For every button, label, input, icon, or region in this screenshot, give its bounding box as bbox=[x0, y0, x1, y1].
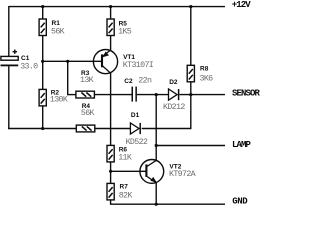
resistor R1 bbox=[39, 19, 65, 36]
node dot rail-R1 bbox=[41, 5, 44, 8]
svg-text:1K5: 1K5 bbox=[118, 27, 132, 36]
node dot R6-R7-base bbox=[109, 170, 112, 173]
wire R8 top bbox=[190, 7, 192, 66]
svg-text:56K: 56K bbox=[51, 27, 65, 36]
wire C1 bottom to R4 row bbox=[8, 66, 10, 129]
svg-text:33.0: 33.0 bbox=[20, 62, 38, 71]
svg-text:KT3107I: KT3107I bbox=[123, 61, 154, 70]
wire R2 bottom bbox=[42, 106, 44, 129]
wire R8 bottom bbox=[190, 82, 192, 95]
svg-text:KT972A: KT972A bbox=[169, 170, 196, 179]
svg-text:KD212: KD212 bbox=[163, 103, 185, 112]
wire LAMP row bbox=[156, 145, 225, 147]
node dot LAMP junction bbox=[155, 144, 158, 147]
resistor R3 bbox=[76, 70, 95, 98]
diode D2 bbox=[163, 79, 185, 112]
wire R4 to D1 segment bbox=[95, 128, 130, 130]
node dot R1-R2-base bbox=[41, 60, 44, 63]
svg-text:R6: R6 bbox=[119, 147, 128, 154]
svg-text:82K: 82K bbox=[119, 191, 133, 200]
wire C2/D2 junction down to LAMP node bbox=[155, 95, 157, 146]
resistor R2 bbox=[39, 89, 68, 106]
svg-text:56K: 56K bbox=[81, 109, 95, 118]
capacitor C1 bbox=[1, 50, 39, 72]
wire R5 top bbox=[110, 7, 112, 19]
wire base row to VT1 base bbox=[43, 60, 102, 62]
wire +12V rail bbox=[9, 6, 225, 8]
wire GND row bbox=[110, 203, 225, 205]
capacitor C2 bbox=[124, 77, 152, 102]
wire VT1 collector down to R6 bbox=[110, 73, 112, 146]
svg-text:+12V: +12V bbox=[232, 0, 252, 10]
transistor VT2 bbox=[140, 160, 196, 184]
svg-text:R1: R1 bbox=[52, 20, 61, 27]
wire D1 cathode to R8 column bbox=[142, 128, 192, 130]
wire R4/D1 row left segment bbox=[8, 128, 76, 130]
svg-text:C2: C2 bbox=[124, 78, 133, 85]
wire R1 top bbox=[42, 7, 44, 19]
node dot rail-R5 bbox=[109, 5, 112, 8]
wire up to SENSOR junction bbox=[190, 95, 192, 129]
svg-text:D2: D2 bbox=[169, 79, 178, 86]
wire R2 top bbox=[42, 61, 44, 89]
svg-text:SENSOR: SENSOR bbox=[232, 89, 261, 99]
svg-text:22n: 22n bbox=[138, 77, 152, 86]
svg-text:R8: R8 bbox=[200, 66, 209, 73]
svg-text:C1: C1 bbox=[21, 55, 30, 62]
wire VT2 emitter to GND bbox=[155, 182, 157, 204]
svg-text:3K6: 3K6 bbox=[200, 74, 214, 83]
wire left line down to C1 bbox=[8, 6, 10, 56]
node dot rail-R8 bbox=[189, 5, 192, 8]
node dot VT2 emitter GND bbox=[155, 203, 158, 206]
wire R3 branch down bbox=[67, 61, 69, 95]
node dot SENSOR junction bbox=[189, 93, 192, 96]
wire R3 branch horizontal bbox=[68, 94, 76, 96]
svg-text:13K: 13K bbox=[80, 76, 94, 85]
resistor R5 bbox=[107, 19, 132, 36]
resistor R8 bbox=[187, 65, 213, 83]
wire R7 bottom to GND row bbox=[110, 200, 112, 204]
wire R3 to C2 bbox=[94, 94, 131, 96]
wire D2 cathode to SENSOR terminal bbox=[180, 94, 226, 96]
wire VT2 base bbox=[111, 170, 146, 172]
node dot R2-R4 bbox=[41, 127, 44, 130]
svg-text:11K: 11K bbox=[118, 154, 132, 163]
resistor R4 bbox=[76, 103, 95, 132]
node dot C2-D2-collector bbox=[155, 93, 158, 96]
diode D1 bbox=[126, 112, 148, 147]
wire R5 to VT1 emitter bbox=[110, 36, 112, 51]
wire VT2 collector bbox=[155, 146, 157, 161]
svg-text:LAMP: LAMP bbox=[232, 140, 252, 150]
svg-text:KD522: KD522 bbox=[126, 138, 148, 147]
resistor R7 bbox=[107, 183, 132, 200]
svg-text:D1: D1 bbox=[131, 112, 140, 119]
wire R6 bottom to base junction bbox=[110, 162, 112, 184]
svg-text:VT1: VT1 bbox=[123, 54, 135, 61]
svg-text:GND: GND bbox=[232, 197, 248, 207]
wire R1 bottom to base row bbox=[42, 36, 44, 62]
resistor R6 bbox=[107, 145, 132, 162]
transistor VT1 bbox=[93, 50, 153, 74]
wire C2 to D2 junction bbox=[137, 94, 169, 96]
node dot R3 branch bbox=[66, 60, 69, 63]
svg-text:R7: R7 bbox=[120, 183, 129, 190]
svg-text:130K: 130K bbox=[50, 96, 68, 105]
